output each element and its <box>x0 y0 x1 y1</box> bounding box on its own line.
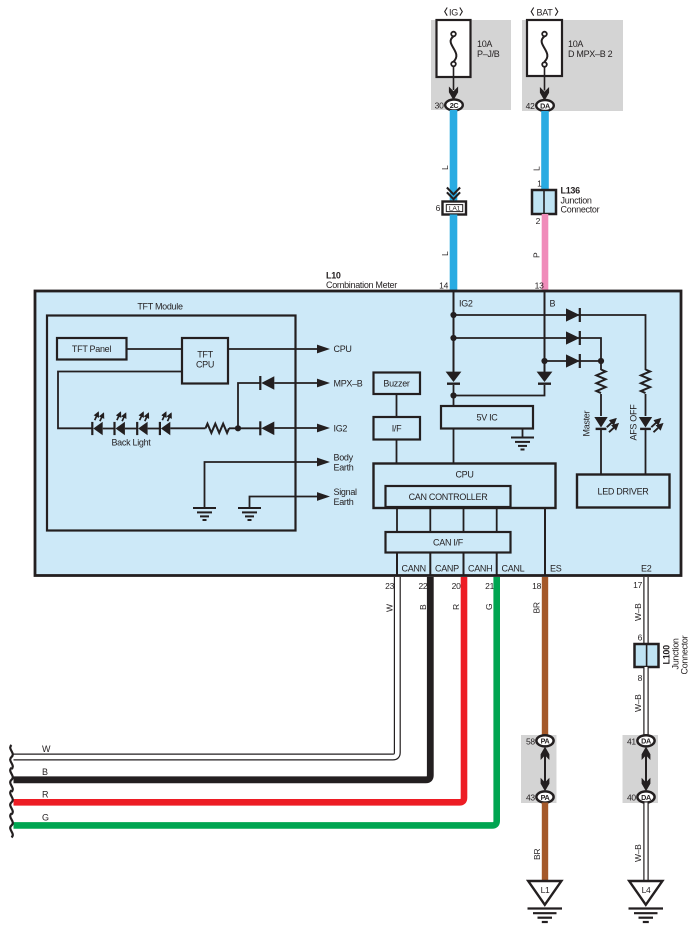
svg-text:14: 14 <box>439 281 448 291</box>
svg-text:D MPX–B 2: D MPX–B 2 <box>568 49 613 59</box>
svg-text:G: G <box>484 604 494 610</box>
wire W-B (E2) middle <box>643 667 648 737</box>
svg-text:DA: DA <box>641 737 651 746</box>
CAN I/F box <box>386 532 511 553</box>
svg-text:CANN: CANN <box>402 564 426 574</box>
svg-text:CAN CONTROLLER: CAN CONTROLLER <box>409 492 489 502</box>
svg-text:L136: L136 <box>561 186 581 196</box>
pin labels row <box>402 564 652 574</box>
resistor backlight <box>206 424 230 433</box>
connector pass-through arrows PA <box>541 747 550 792</box>
connector chevron above LA1 <box>447 188 460 200</box>
diode D5 (B down) <box>537 372 553 384</box>
svg-text:IG: IG <box>449 8 458 18</box>
continuation squiggle R <box>10 790 13 814</box>
svg-text:L10: L10 <box>326 271 341 281</box>
svg-text:B: B <box>418 604 428 610</box>
svg-text:DA: DA <box>540 101 550 110</box>
svg-text:CPU: CPU <box>334 344 352 354</box>
svg-text:L: L <box>532 166 542 171</box>
svg-text:BAT: BAT <box>537 8 554 18</box>
output arrow CPU <box>317 344 352 354</box>
LED AFS OFF <box>629 404 662 441</box>
backlight LED 4 <box>160 413 171 436</box>
node <box>450 392 456 398</box>
wire L (cyan) from 2C to LA1 <box>450 110 458 201</box>
svg-text:1: 1 <box>537 179 542 189</box>
svg-text:AFS OFF: AFS OFF <box>629 404 639 441</box>
wire CANL pin <box>496 553 498 576</box>
connector LA1 pin 6 <box>436 202 466 215</box>
svg-text:L1: L1 <box>541 885 550 895</box>
wire color label B <box>418 604 428 610</box>
svg-text:W: W <box>42 744 51 754</box>
svg-text:CANL: CANL <box>502 564 525 574</box>
wire 5V IC to CPU <box>453 429 455 464</box>
wire second rail to Master branch <box>454 338 602 370</box>
wire <box>148 428 160 430</box>
backlight LED 2 <box>115 413 126 436</box>
pin 2 <box>536 216 541 226</box>
wire B from pin 13 <box>545 291 556 373</box>
continuation squiggle B <box>10 768 13 792</box>
fuse IG 10A P-J/B <box>451 32 457 67</box>
svg-text:DA: DA <box>641 793 651 802</box>
wire color label W <box>385 604 395 612</box>
wire diode to IG2 arrow <box>274 427 317 429</box>
wire W-B (E2) lower <box>643 803 648 882</box>
svg-text:CANH: CANH <box>468 564 492 574</box>
svg-text:18: 18 <box>532 581 541 591</box>
svg-text:22: 22 <box>418 581 427 591</box>
svg-text:W: W <box>385 604 395 612</box>
fuse box BAT <box>527 20 562 76</box>
wire G (CANL) <box>14 577 497 825</box>
diode D4 (IG2 down) <box>446 372 462 384</box>
output arrow Body Earth <box>317 453 354 473</box>
svg-text:2: 2 <box>536 216 541 226</box>
wire color label W-B <box>633 844 643 862</box>
wire color label L <box>440 251 450 256</box>
node <box>450 335 456 341</box>
connector shade EA <box>521 735 557 803</box>
label W <box>42 744 51 754</box>
pin 8 L100 <box>638 673 643 683</box>
svg-text:TFT Panel: TFT Panel <box>72 344 111 354</box>
junction connector L136 <box>532 186 600 215</box>
svg-text:B: B <box>550 299 556 309</box>
backlight LED 1 <box>92 413 103 436</box>
wire TFT CPU left to backlight chain <box>58 372 182 429</box>
label L10 Combination Meter <box>326 271 397 291</box>
connector pass-through arrows DA <box>642 747 651 792</box>
TFT Module box <box>47 302 296 531</box>
svg-text:42: 42 <box>526 101 535 111</box>
svg-text:43: 43 <box>526 793 535 803</box>
svg-text:2C: 2C <box>450 101 459 110</box>
wire P (pink) from L136 to pin 13 <box>542 214 549 291</box>
svg-text:B: B <box>42 767 48 777</box>
connector shade IA <box>623 735 659 803</box>
continuation squiggle W <box>10 745 13 769</box>
wire CAN 3 <box>463 507 465 532</box>
wire top rail to AFS branch <box>454 315 646 370</box>
fuse box IG <box>437 20 471 77</box>
wire resistor to LED AFS <box>645 394 647 416</box>
svg-text:PA: PA <box>541 793 550 802</box>
junction block shade (IG) <box>431 20 511 110</box>
svg-text:6: 6 <box>638 633 643 643</box>
ground 5V IC <box>511 438 534 450</box>
wire LED AFS to LED DRIVER <box>645 428 647 474</box>
diode to IG2 output <box>260 421 274 435</box>
ground L4 <box>629 881 662 905</box>
pin 20 <box>452 581 461 591</box>
svg-text:I/F: I/F <box>392 424 402 434</box>
wire B (CANP) <box>14 577 431 780</box>
svg-text:ES: ES <box>550 564 562 574</box>
wire TFT CPU to CPU output <box>228 348 318 350</box>
wire color label BR <box>532 602 542 613</box>
svg-text:IG2: IG2 <box>334 424 348 434</box>
wire color label P <box>532 252 542 258</box>
wire LED Master to LED DRIVER <box>600 428 602 474</box>
wire CANH pin <box>463 553 465 576</box>
svg-text:5V IC: 5V IC <box>476 413 498 423</box>
svg-text:Master: Master <box>582 410 592 436</box>
wire CAN 2 <box>429 507 431 532</box>
svg-text:13: 13 <box>535 281 544 291</box>
svg-text:17: 17 <box>633 580 642 590</box>
value label 10A P-J/B <box>477 39 500 59</box>
ground bars L4 <box>629 909 664 923</box>
pin 18 <box>532 581 541 591</box>
I/F box <box>374 417 421 440</box>
wire L (cyan) from DA to L136 <box>541 111 549 190</box>
diode to MPX-B output <box>260 376 274 390</box>
wire IG2 from pin 14 <box>454 291 473 373</box>
svg-text:23: 23 <box>385 581 394 591</box>
diode D3 <box>566 354 580 368</box>
svg-text:Back Light: Back Light <box>111 438 151 448</box>
pin 17 <box>633 580 642 590</box>
5V IC box <box>441 406 533 429</box>
wire Buzzer to I/F <box>396 394 398 417</box>
label B <box>42 767 48 777</box>
svg-text:E2: E2 <box>641 564 652 574</box>
wire CANN pin <box>396 553 398 576</box>
wire I/F to CPU <box>396 440 398 464</box>
Buzzer box <box>374 373 421 395</box>
svg-text:Earth: Earth <box>334 463 354 473</box>
wire color label W-B <box>633 694 643 712</box>
wire <box>103 428 115 430</box>
wire <box>125 428 137 430</box>
wire body earth <box>205 462 318 508</box>
CPU box <box>374 464 556 509</box>
connector oval PA pin 43 <box>526 791 554 802</box>
wire W (CANN) <box>14 577 398 757</box>
backlight LED 3 <box>137 413 148 436</box>
wire resistor to LED Master <box>600 394 602 416</box>
svg-text:G: G <box>42 813 49 823</box>
value label 10A D MPX-B 2 <box>568 39 613 59</box>
svg-text:10A: 10A <box>568 39 583 49</box>
svg-text:W–B: W–B <box>633 844 643 862</box>
wire CAN 1 <box>396 507 398 532</box>
pin 6 L100 <box>638 633 643 643</box>
label G <box>42 813 49 823</box>
svg-text:TFT: TFT <box>197 350 213 360</box>
resistor Master <box>596 370 605 394</box>
wire TFT Panel to TFT CPU <box>127 348 183 350</box>
node on Master branch <box>598 358 604 364</box>
fuse BAT 10A D MPX-B 2 <box>542 32 548 67</box>
svg-text:6: 6 <box>436 203 441 213</box>
node junction dot <box>235 425 241 431</box>
svg-text:R: R <box>451 604 461 610</box>
pin 21 <box>485 581 494 591</box>
connector oval 2C pin 30 <box>435 100 463 111</box>
svg-text:Body: Body <box>334 453 354 463</box>
svg-text:P: P <box>532 252 542 258</box>
svg-text:Buzzer: Buzzer <box>383 379 410 389</box>
LED Master <box>582 410 618 436</box>
svg-text:58: 58 <box>526 737 535 747</box>
svg-text:20: 20 <box>452 581 461 591</box>
ground bars L1 <box>528 909 563 923</box>
wire W-B (E2) upper <box>643 577 648 644</box>
arrow into connector DA <box>540 67 549 101</box>
wire node up to MPX-B diode <box>238 383 260 428</box>
pin 22 <box>418 581 427 591</box>
svg-text:21: 21 <box>485 581 494 591</box>
pin 14 <box>439 281 448 291</box>
wire CANP pin <box>429 553 431 576</box>
wire color label L <box>532 166 542 171</box>
svg-text:IG2: IG2 <box>459 299 473 309</box>
svg-text:TFT Module: TFT Module <box>137 302 183 312</box>
svg-text:L4: L4 <box>642 885 651 895</box>
label R <box>42 790 49 800</box>
svg-text:30: 30 <box>435 101 444 111</box>
svg-text:Combination Meter: Combination Meter <box>326 280 397 290</box>
pin 23 <box>385 581 394 591</box>
wire color label BR <box>532 849 542 860</box>
wire color label R <box>451 604 461 610</box>
svg-text:41: 41 <box>627 737 636 747</box>
connector oval DA pin 41 <box>627 735 655 746</box>
label Back Light <box>111 438 151 448</box>
diode D1 <box>566 308 580 322</box>
svg-text:Earth: Earth <box>334 497 354 507</box>
wire CAN 4 <box>496 507 498 532</box>
node <box>450 312 456 318</box>
output arrow MPX-B <box>317 379 363 389</box>
connector oval DA pin 42 <box>526 100 554 111</box>
wire resistor to node <box>229 427 262 429</box>
svg-text:CANP: CANP <box>435 564 459 574</box>
wire 5V IC to ground <box>522 429 524 438</box>
pin 13 <box>535 281 544 291</box>
wire color label G <box>484 604 494 610</box>
wire color label L <box>440 165 450 170</box>
pin 1 <box>537 179 542 189</box>
svg-text:LA1: LA1 <box>449 206 461 213</box>
arrow into connector 2C <box>449 66 458 100</box>
svg-text:Connector: Connector <box>561 205 600 215</box>
svg-text:L: L <box>440 251 450 256</box>
connector oval PA pin 58 <box>526 735 554 746</box>
wire LED4 to resistor <box>170 427 205 429</box>
connector oval DA pin 40 <box>627 791 655 802</box>
svg-text:40: 40 <box>627 793 636 803</box>
wire color label W-B <box>633 603 643 621</box>
TFT Panel box <box>57 338 127 360</box>
CAN CONTROLLER box <box>386 486 511 507</box>
svg-text:CPU: CPU <box>455 470 473 480</box>
svg-text:LED DRIVER: LED DRIVER <box>597 487 649 497</box>
svg-text:Signal: Signal <box>334 487 358 497</box>
ground signal earth <box>238 508 261 520</box>
wire R (CANH) <box>14 577 465 802</box>
ground body earth <box>193 508 216 520</box>
svg-text:Connector: Connector <box>680 635 690 674</box>
resistor AFS OFF <box>641 370 650 394</box>
wire ES from CPU <box>544 508 546 575</box>
continuation squiggle G <box>10 813 13 837</box>
svg-text:CAN I/F: CAN I/F <box>433 538 464 548</box>
wire diode outputs join <box>454 385 545 396</box>
svg-text:PA: PA <box>541 737 550 746</box>
svg-text:L: L <box>440 165 450 170</box>
junction connector L100 <box>635 635 690 674</box>
svg-text:P–J/B: P–J/B <box>477 49 500 59</box>
ground L1 <box>528 881 561 905</box>
svg-text:BR: BR <box>532 602 542 613</box>
label (IG) <box>445 8 463 18</box>
label (BAT) <box>531 8 558 18</box>
junction block shade (BAT) <box>522 20 623 111</box>
svg-text:MPX–B: MPX–B <box>334 379 363 389</box>
diode D2 <box>566 331 580 345</box>
wire to 5V IC <box>453 396 455 407</box>
svg-text:W–B: W–B <box>633 603 643 621</box>
wire diode to MPX-B arrow <box>274 382 317 384</box>
output arrow IG2 <box>317 424 347 434</box>
wire BR (ES) upper <box>542 577 548 737</box>
wire L (cyan) from LA1 to pin 14 <box>450 215 458 292</box>
node on B <box>541 358 547 364</box>
wire B rail to Master branch <box>545 360 602 362</box>
svg-text:BR: BR <box>532 849 542 860</box>
svg-text:W–B: W–B <box>633 694 643 712</box>
output arrow Signal Earth <box>317 487 357 507</box>
svg-text:8: 8 <box>638 673 643 683</box>
LED DRIVER box <box>577 475 670 508</box>
wire BR (ES) lower <box>542 803 548 882</box>
TFT CPU box <box>182 338 228 384</box>
wire signal earth <box>250 497 318 509</box>
svg-text:10A: 10A <box>477 39 492 49</box>
svg-text:R: R <box>42 790 49 800</box>
svg-text:CPU: CPU <box>196 360 214 370</box>
